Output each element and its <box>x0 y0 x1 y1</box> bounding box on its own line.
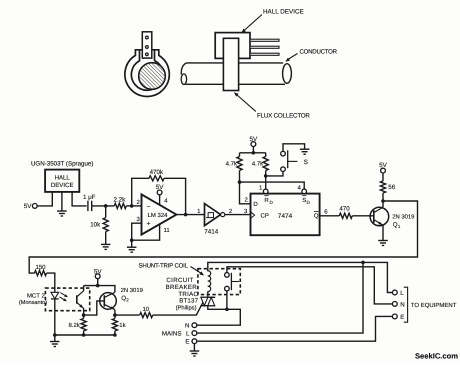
5V supply terminal (hall) <box>24 203 37 210</box>
wire to RD pin 1 <box>265 176 267 189</box>
5V rail junction <box>96 284 100 288</box>
svg-text:(Philips): (Philips) <box>176 304 197 311</box>
node D junction <box>238 180 242 184</box>
resistor 56 <box>380 181 395 193</box>
svg-text:N: N <box>400 301 404 308</box>
node C junction <box>113 313 117 317</box>
svg-text:CONDUCTOR: CONDUCTOR <box>300 49 338 56</box>
5V supply terminal (Q1) <box>379 162 388 181</box>
ground (op-amp) <box>127 247 136 252</box>
mains L terminal <box>186 330 197 337</box>
svg-text:1 μF: 1 μF <box>83 194 96 201</box>
wire junction to mains N <box>197 309 241 325</box>
shunt-trip coil L1 <box>208 271 211 292</box>
op-amp output wire <box>176 214 204 216</box>
op-amp pin 11 wire <box>132 224 171 240</box>
svg-text:8.2k: 8.2k <box>68 322 80 329</box>
Q1 emitter wire to ground <box>382 225 384 240</box>
svg-text:56: 56 <box>388 184 395 191</box>
svg-text:10k: 10k <box>90 222 101 229</box>
wire to SD pin 4 <box>240 182 305 189</box>
svg-text:7474: 7474 <box>278 213 293 220</box>
ground (hall) <box>57 211 67 216</box>
svg-text:4.7k: 4.7k <box>226 161 238 168</box>
hall pin 3 wire to capacitor <box>72 192 87 206</box>
svg-text:E: E <box>400 314 404 321</box>
conductor cylinder (side view) <box>181 63 291 85</box>
phototransistor <box>77 291 84 309</box>
LED D1 <box>51 292 59 299</box>
svg-text:2.2k: 2.2k <box>114 197 127 204</box>
svg-text:SHUNT-TRIP COIL: SHUNT-TRIP COIL <box>139 262 189 269</box>
resistor R 4.7k right <box>252 153 268 176</box>
wire switch top to ground <box>283 144 305 152</box>
junction pins 3-11 <box>130 238 134 242</box>
wire node A down to 10k <box>105 206 107 218</box>
output junction <box>184 213 188 217</box>
rail junction 8.2k <box>82 333 86 337</box>
svg-text:L: L <box>186 330 190 337</box>
node RD junction <box>264 174 268 178</box>
5V supply terminal (Q2) <box>94 268 103 285</box>
equipment L terminal <box>392 290 404 297</box>
label CONDUCTOR with leader arrow <box>285 49 337 62</box>
svg-text:2N 3019: 2N 3019 <box>121 287 143 294</box>
ground (switch) <box>300 149 310 154</box>
hall device pins <box>250 39 279 55</box>
svg-text:D: D <box>253 201 258 208</box>
pin 4 bubble <box>302 189 307 194</box>
svg-text:(Monsanto): (Monsanto) <box>19 299 47 306</box>
bracket <box>404 287 408 322</box>
svg-text:FLUX COLLECTOR: FLUX COLLECTOR <box>257 113 310 120</box>
op-amp pin 4 5V supply <box>156 184 168 205</box>
svg-text:470k: 470k <box>150 169 164 176</box>
wire Q2 base <box>84 301 105 315</box>
junction triac/contact/mains N <box>225 308 229 312</box>
svg-text:2N 3019: 2N 3019 <box>392 213 414 220</box>
resistor 10k <box>90 218 108 232</box>
svg-text:HALL DEVICE: HALL DEVICE <box>263 9 304 16</box>
5V supply terminal (7474) <box>250 136 259 153</box>
junction feedback/input <box>130 204 134 208</box>
rail junction 1k <box>113 333 117 337</box>
wire switch bottom to RD node <box>266 172 283 176</box>
svg-text:MAINS: MAINS <box>162 330 182 337</box>
label MCT 2 (Monsanto) <box>19 292 47 306</box>
svg-text:10: 10 <box>142 306 149 313</box>
rail junction LED <box>53 333 57 337</box>
wire triac bottom <box>208 306 227 310</box>
svg-text:L: L <box>400 290 404 297</box>
resistor 10 <box>140 306 153 318</box>
label SHUNT-TRIP COIL with arrow <box>139 262 205 275</box>
capacitor C1 1uF <box>83 194 96 211</box>
optocoupler MCT 2 dashed box <box>45 288 89 311</box>
transistor Q1 2N 3019 <box>370 207 414 229</box>
label CIRCUIT BREAKER <box>166 277 198 291</box>
transistor Q2 2N 3019 <box>100 287 143 310</box>
svg-text:−: − <box>147 204 151 211</box>
resistor R 4.7k left <box>226 153 242 182</box>
resistor 150 <box>35 264 47 276</box>
mains E terminal <box>185 339 196 346</box>
svg-text:TO EQUIPMENT: TO EQUIPMENT <box>411 302 457 309</box>
resistor 8.2k <box>68 315 86 335</box>
resistor 2.2k <box>114 197 127 209</box>
wire Q2 emitter to node C <box>114 310 116 316</box>
switch S contacts <box>281 150 308 171</box>
label FLUX COLLECTOR with leader arrow <box>234 92 311 119</box>
wire photo emitter to node B <box>83 308 85 315</box>
wire Q out to 470 <box>320 215 340 217</box>
svg-text:+: + <box>147 221 151 228</box>
wire 5V to hall pin 1 <box>37 192 52 206</box>
flux collector front view (yoke ring) <box>125 50 169 97</box>
equipment E terminal <box>392 314 404 321</box>
op-amp U1 LM 324 <box>142 194 177 234</box>
light arrows <box>60 293 69 302</box>
node A junction <box>104 204 108 208</box>
wire 2.2k to op-amp pin 2 <box>126 205 141 207</box>
svg-text:N: N <box>185 322 189 329</box>
svg-text:Q: Q <box>314 213 319 220</box>
wire to D input <box>240 182 251 204</box>
wire rail to ground <box>54 335 56 342</box>
svg-text:E: E <box>185 339 189 346</box>
wire 10 to triac gate <box>153 298 206 315</box>
wire mains E to equipment E <box>197 316 393 341</box>
Q1 collector wire <box>382 201 384 207</box>
svg-text:SeekIC.com: SeekIC.com <box>415 352 458 361</box>
wire 470 to Q1 base <box>352 215 374 217</box>
junction L net <box>361 261 365 265</box>
ground (bottom rail) <box>50 342 60 347</box>
svg-text:BT137: BT137 <box>179 298 198 305</box>
bottom rail <box>55 334 115 336</box>
breaker contact switch <box>225 273 240 291</box>
triac BT137 <box>200 297 215 305</box>
conductor cross-section (hatched circle) <box>139 63 166 90</box>
svg-text:5V: 5V <box>156 184 165 191</box>
svg-text:470: 470 <box>339 206 350 213</box>
hall pin 2 wire to ground <box>61 192 63 211</box>
svg-text:150: 150 <box>35 264 46 271</box>
wire breaker contact top to equipment N <box>227 267 393 304</box>
wire 56 to collector node <box>382 193 384 201</box>
svg-text:DEVICE: DEVICE <box>51 182 74 189</box>
wire 7414 to 7474 CP <box>225 214 251 216</box>
equipment N terminal <box>392 301 404 308</box>
wire triac top to coil <box>207 291 209 297</box>
svg-text:5V: 5V <box>24 203 33 210</box>
hall device tab (front view) <box>142 32 152 58</box>
feedback wire up <box>132 178 149 206</box>
wire photo collector to 5V rail <box>83 286 85 291</box>
svg-text:1k: 1k <box>119 322 126 329</box>
collector node junction <box>381 199 385 203</box>
svg-text:BREAKER: BREAKER <box>166 284 198 291</box>
mains N terminal <box>185 322 197 329</box>
op-amp pin 3 wire to ground <box>132 216 142 240</box>
wire 150 to LED <box>47 273 55 292</box>
pin 1 bubble <box>263 189 268 194</box>
svg-text:S: S <box>304 159 308 166</box>
label HALL DEVICE with leader arrow <box>241 9 303 34</box>
node B junction <box>82 313 86 317</box>
hall device block U-hall <box>45 170 79 192</box>
svg-text:MCT 2: MCT 2 <box>27 292 46 299</box>
wire 5V rail to Q2 collector <box>84 286 115 293</box>
hall device package (side view) <box>215 33 250 59</box>
pull-up rail <box>240 152 266 154</box>
ground (mains E) <box>190 351 200 356</box>
svg-text:HALL: HALL <box>55 175 71 182</box>
svg-text:7414: 7414 <box>204 229 219 236</box>
ground (Q1) <box>378 241 388 246</box>
svg-text:4.7k: 4.7k <box>252 161 264 168</box>
rail junction <box>252 151 256 155</box>
wire 10k to ground <box>105 232 107 245</box>
label TRIAC BT137 (Philips) <box>176 291 199 312</box>
circuit breaker dashed box <box>198 269 240 295</box>
wire mains E to ground <box>193 344 195 351</box>
svg-text:LM 324: LM 324 <box>147 212 168 219</box>
feedback wire to output <box>164 178 186 214</box>
wire LED cathode down <box>54 299 56 335</box>
flip-flop U3 7474 <box>251 194 320 236</box>
resistor 1k <box>112 315 126 335</box>
svg-text:CP: CP <box>261 213 269 220</box>
svg-text:11: 11 <box>164 227 171 234</box>
schmitt inverter U2 7414 <box>204 204 225 236</box>
wire Q1 collector to opto LED rail <box>29 201 417 273</box>
wire breaker contact bottom junction <box>226 291 228 309</box>
wire node C to 10 resistor <box>115 314 140 316</box>
wire mains L to L net <box>197 262 363 333</box>
resistor 470 <box>339 206 352 219</box>
ground (10k) <box>101 244 111 249</box>
wire to ground (op-amp) <box>131 240 133 247</box>
svg-text:UGN-3503T (Sprague): UGN-3503T (Sprague) <box>31 160 93 167</box>
wire capacitor to node A <box>92 205 115 207</box>
resistor 470k feedback <box>149 169 164 181</box>
wire coil to L nets <box>208 262 393 292</box>
flux collector bar (side view) <box>223 38 238 90</box>
